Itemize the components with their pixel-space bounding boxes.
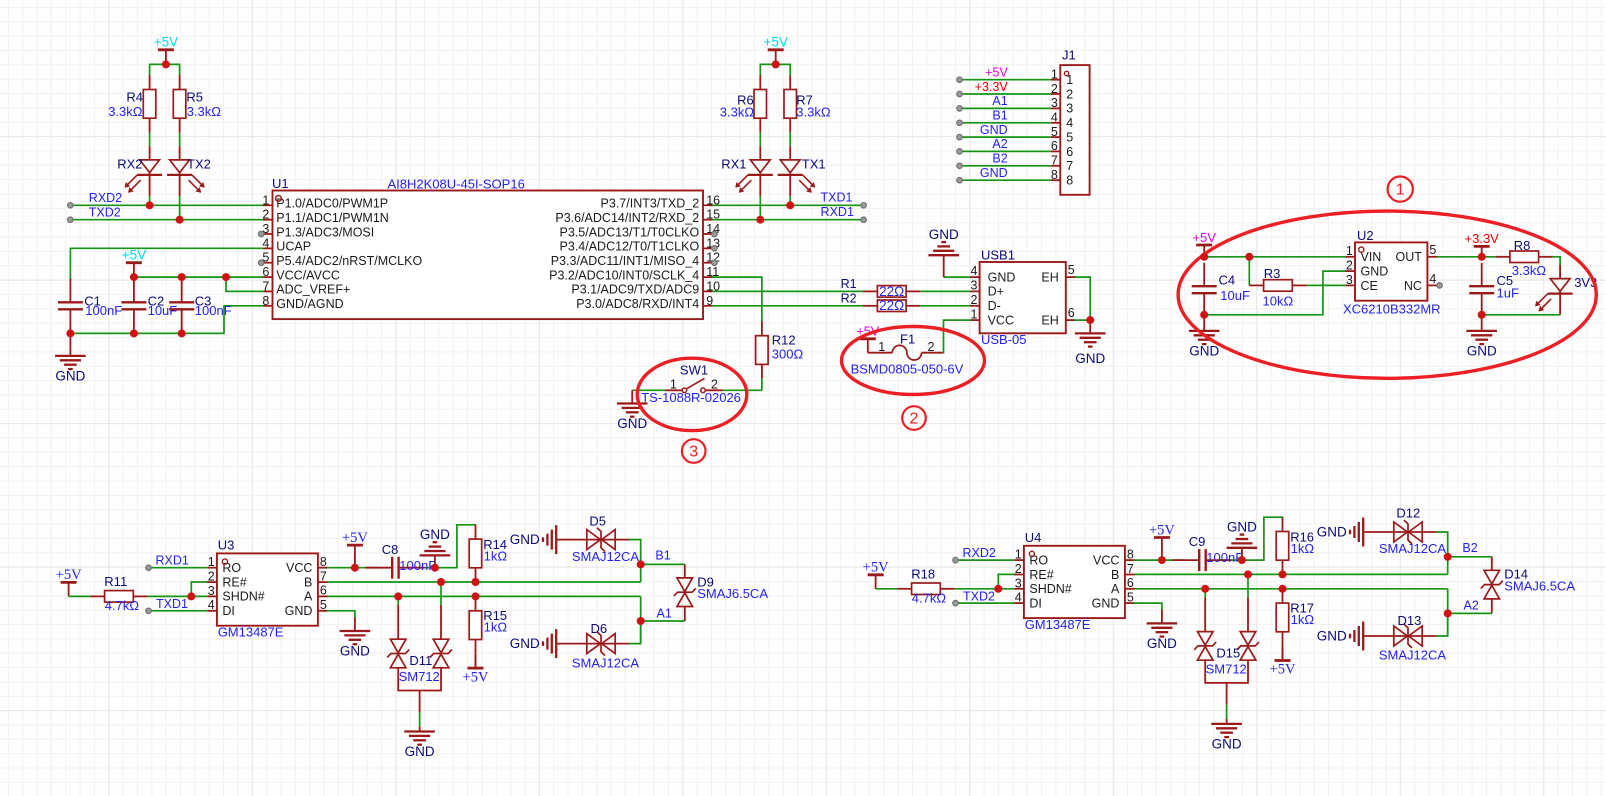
svg-text:5: 5 [1429, 243, 1436, 257]
wire [630, 540, 641, 565]
svg-text:P3.1/ADC9/TXD/ADC9: P3.1/ADC9/TXD/ADC9 [571, 283, 699, 297]
svg-text:A1: A1 [992, 94, 1007, 108]
svg-text:GM13487E: GM13487E [1025, 617, 1091, 632]
wire net RXD2 [956, 559, 1015, 561]
wire net RXD1 [149, 567, 208, 569]
svg-text:SMAJ12CA: SMAJ12CA [1379, 541, 1447, 556]
junction [1238, 556, 1246, 564]
svg-text:P1.3/ADC3/MOSI: P1.3/ADC3/MOSI [276, 225, 374, 239]
svg-text:4: 4 [1015, 591, 1022, 605]
power flag +5V [1192, 230, 1216, 257]
svg-text:VCC/AVCC: VCC/AVCC [276, 268, 340, 282]
svg-text:RE#: RE# [1029, 568, 1053, 582]
svg-text:3: 3 [970, 279, 977, 293]
svg-text:P3.4/ADC12/T0/T1CLKO: P3.4/ADC12/T0/T1CLKO [560, 240, 700, 254]
wire UCAP [70, 248, 263, 278]
svg-text:1: 1 [1015, 548, 1022, 562]
svg-text:A2: A2 [992, 137, 1007, 151]
junction [222, 273, 230, 281]
svg-text:5: 5 [1051, 125, 1058, 139]
svg-text:+5V: +5V [863, 560, 889, 576]
svg-text:TXD1: TXD1 [821, 191, 853, 205]
wire net GND [960, 136, 1051, 138]
power flag +5V [154, 35, 178, 65]
svg-text:7: 7 [1066, 159, 1073, 173]
wire net RXD1 [713, 219, 864, 221]
svg-text:RXD2: RXD2 [89, 191, 122, 205]
svg-text:U2: U2 [1357, 228, 1374, 243]
svg-text:2: 2 [208, 570, 215, 584]
annotation ellipse 1 [1178, 211, 1596, 378]
svg-text:5: 5 [320, 598, 327, 612]
resistor R6 [754, 75, 767, 132]
svg-text:1: 1 [970, 307, 977, 321]
svg-text:D6: D6 [591, 621, 608, 636]
junction [146, 201, 154, 209]
IC J1 header [1051, 48, 1090, 195]
ground flag above pin4 [944, 276, 970, 278]
wire [1482, 314, 1560, 316]
wire [713, 290, 863, 292]
power flag +5V [857, 325, 880, 353]
wire [1553, 257, 1560, 265]
resistor R7 [784, 75, 797, 132]
svg-text:SMAJ6.5CA: SMAJ6.5CA [697, 586, 768, 601]
wire net TXD2 [70, 219, 263, 221]
wire [148, 595, 208, 597]
junction [437, 578, 445, 586]
svg-text:6: 6 [320, 584, 327, 598]
svg-text:B2: B2 [1462, 541, 1477, 555]
wire [1242, 517, 1283, 560]
svg-text:100nF: 100nF [85, 303, 122, 318]
wire [1248, 257, 1250, 286]
wire [630, 621, 641, 644]
TVS diode D13 SMAJ12CA [1317, 613, 1447, 663]
svg-text:VIN: VIN [1361, 250, 1382, 264]
svg-text:P3.5/ADC13/T1/T0CLKO: P3.5/ADC13/T1/T0CLKO [560, 225, 700, 239]
svg-text:ADC_VREF+: ADC_VREF+ [276, 283, 350, 297]
wire [920, 305, 970, 307]
ground [1466, 315, 1497, 359]
svg-text:1: 1 [878, 340, 885, 354]
junction [1245, 253, 1253, 261]
pin 12 no-connect [712, 260, 718, 266]
wire vcc rail [134, 276, 263, 278]
svg-text:TXD1: TXD1 [156, 597, 188, 611]
TVS diode D6 SMAJ12CA [510, 621, 640, 671]
ground [55, 333, 86, 383]
svg-text:8: 8 [1066, 174, 1073, 188]
svg-text:GND: GND [1361, 264, 1389, 278]
power flag +5V [122, 248, 146, 278]
svg-text:8: 8 [1051, 168, 1058, 182]
svg-text:GND: GND [1317, 629, 1347, 644]
power flag +5V [56, 567, 82, 596]
capacitor C8 [365, 557, 424, 579]
pin 14 no-connect [712, 231, 718, 237]
wire [150, 64, 180, 75]
annotation ellipse 3 [637, 358, 747, 430]
junction [1444, 609, 1452, 617]
svg-text:NC: NC [1404, 279, 1422, 293]
wire net A1 [641, 620, 685, 622]
svg-text:GND: GND [420, 527, 450, 542]
svg-text:+5V: +5V [1270, 662, 1296, 678]
wire [713, 305, 863, 307]
junction [637, 560, 645, 568]
svg-text:4.7kΩ: 4.7kΩ [105, 598, 140, 613]
svg-text:U1: U1 [272, 176, 289, 191]
wire net A1 [960, 107, 1051, 109]
wire [149, 196, 151, 205]
svg-text:D+: D+ [988, 285, 1004, 299]
svg-text:P3.6/ADC14/INT2/RXD_2: P3.6/ADC14/INT2/RXD_2 [555, 211, 699, 225]
resistor R18 [897, 583, 954, 595]
pin 5 no-connect [258, 260, 264, 266]
svg-text:100nF: 100nF [399, 558, 436, 573]
junction [1279, 585, 1287, 593]
svg-text:F1: F1 [900, 331, 915, 346]
junction [472, 578, 480, 586]
LED RX1 [736, 146, 773, 196]
wire [789, 196, 791, 205]
resistor R17 [1276, 589, 1289, 646]
svg-text:+5V: +5V [342, 530, 368, 546]
svg-text:2: 2 [262, 208, 269, 222]
svg-text:4: 4 [1429, 272, 1436, 286]
wire [640, 564, 642, 582]
capacitor C5 [1469, 263, 1494, 317]
resistor R11 [90, 591, 147, 603]
svg-text:P1.1/ADC1/PWM1N: P1.1/ADC1/PWM1N [276, 211, 389, 225]
wire [1447, 557, 1449, 575]
svg-text:8: 8 [320, 555, 327, 569]
svg-text:3: 3 [1346, 273, 1353, 287]
IC U1 AI8H2K08U-45I-SOP16 [262, 176, 720, 319]
svg-text:USB-05: USB-05 [981, 332, 1027, 347]
svg-text:5: 5 [1127, 590, 1134, 604]
capacitor C4 [1192, 263, 1217, 317]
wire B [1135, 573, 1448, 575]
power flag +5V inverted [475, 654, 477, 668]
svg-text:R18: R18 [911, 567, 935, 582]
svg-text:R12: R12 [772, 333, 796, 348]
svg-text:1: 1 [1396, 182, 1405, 199]
svg-text:TXD2: TXD2 [89, 205, 121, 219]
wire net B1 [960, 122, 1051, 124]
svg-text:GND: GND [617, 416, 647, 431]
svg-text:+5V: +5V [154, 35, 178, 50]
svg-text:+5V: +5V [463, 669, 489, 685]
svg-text:10uF: 10uF [1220, 288, 1250, 303]
svg-text:GND: GND [1092, 596, 1120, 610]
wire [998, 574, 1014, 588]
wire net TXD1 [149, 610, 208, 612]
svg-text:B2: B2 [992, 152, 1007, 166]
junction [351, 564, 359, 572]
svg-text:P5.4/ADC2/nRST/MCLKO: P5.4/ADC2/nRST/MCLKO [276, 254, 422, 268]
svg-text:16: 16 [706, 193, 720, 207]
svg-text:U3: U3 [218, 537, 235, 552]
svg-text:AI8H2K08U-45I-SOP16: AI8H2K08U-45I-SOP16 [388, 177, 525, 192]
junction [1478, 311, 1486, 319]
wire [1135, 603, 1162, 610]
svg-text:1: 1 [1051, 68, 1058, 82]
annotation ellipse 2 [842, 327, 985, 395]
svg-text:R4: R4 [126, 90, 143, 105]
wire net +3.3V [960, 93, 1051, 95]
wire [1437, 613, 1448, 636]
svg-text:GND: GND [988, 270, 1016, 284]
resistor R4 [143, 75, 156, 132]
svg-text:3: 3 [689, 443, 698, 460]
svg-text:SHDN#: SHDN# [222, 590, 264, 604]
wire net +5V [960, 79, 1051, 81]
svg-text:RE#: RE# [222, 575, 246, 589]
wire [179, 133, 181, 147]
svg-text:GND: GND [1467, 344, 1497, 359]
LED TX1 [778, 146, 815, 196]
wire [1135, 559, 1186, 561]
svg-text:B1: B1 [992, 109, 1007, 123]
svg-text:7: 7 [320, 569, 327, 583]
wire net B1 [641, 563, 685, 565]
svg-text:GND: GND [1227, 520, 1257, 535]
svg-text:RO: RO [1029, 553, 1048, 567]
svg-text:10uF: 10uF [148, 303, 178, 318]
resistor R3 [1249, 280, 1306, 292]
svg-text:GND: GND [405, 744, 435, 759]
wire [759, 133, 761, 147]
svg-text:6: 6 [1051, 139, 1058, 153]
IC U3 GM13487E [207, 537, 327, 639]
wire [723, 389, 762, 391]
power flag +5V inverted [1282, 646, 1284, 660]
svg-text:CE: CE [1361, 279, 1378, 293]
junction [1158, 556, 1166, 564]
svg-text:TX2: TX2 [187, 157, 211, 172]
svg-text:6: 6 [262, 265, 269, 279]
wire [1220, 559, 1242, 561]
wire [149, 133, 151, 147]
wire [1447, 613, 1449, 636]
pin 13 no-connect [712, 246, 718, 252]
svg-text:SMAJ12CA: SMAJ12CA [572, 549, 640, 564]
svg-text:9: 9 [706, 294, 713, 308]
svg-text:RXD1: RXD1 [821, 205, 854, 219]
wire net GND [960, 179, 1051, 181]
svg-text:UCAP: UCAP [276, 240, 311, 254]
svg-text:D15: D15 [1216, 646, 1240, 661]
TVS diode D9 SMAJ6.5CA [674, 564, 768, 621]
ground [1189, 315, 1220, 359]
svg-text:RXD1: RXD1 [155, 553, 188, 567]
svg-text:1kΩ: 1kΩ [484, 620, 508, 635]
wire EH [1075, 277, 1090, 320]
TVS diode D11 SM712 [388, 582, 452, 727]
junction [786, 201, 794, 209]
svg-text:2: 2 [1051, 82, 1058, 96]
svg-text:1: 1 [208, 555, 215, 569]
ground [631, 390, 633, 403]
svg-text:OUT: OUT [1396, 250, 1423, 264]
TVS diode D15 SM712 [1195, 574, 1259, 719]
svg-text:R1: R1 [841, 277, 857, 291]
TVS diode D12 SMAJ12CA [1317, 506, 1447, 557]
wire [761, 379, 763, 391]
pin 3 no-connect [258, 231, 264, 237]
svg-text:SM712: SM712 [399, 669, 440, 684]
annotation circled 2 [902, 406, 926, 430]
power flag +5V [763, 35, 787, 65]
svg-text:XC6210B332MR: XC6210B332MR [1343, 302, 1441, 317]
svg-text:GND: GND [1317, 525, 1347, 540]
wire [191, 582, 207, 596]
wire net A2 [1448, 612, 1492, 614]
svg-text:GND: GND [1212, 737, 1242, 752]
wire [179, 196, 181, 220]
junction [1201, 585, 1209, 593]
wire net TXD2 [956, 602, 1015, 604]
svg-text:SW1: SW1 [680, 362, 708, 377]
svg-text:3.3kΩ: 3.3kΩ [1512, 263, 1547, 278]
svg-text:RX2: RX2 [117, 157, 142, 172]
svg-text:+5V: +5V [56, 567, 82, 583]
junction [66, 329, 74, 337]
svg-text:DI: DI [1029, 596, 1042, 610]
svg-text:P3.0/ADC8/RXD/INT4: P3.0/ADC8/RXD/INT4 [576, 297, 699, 311]
resistor R12 [756, 321, 769, 378]
wire [1437, 256, 1496, 258]
junction [1244, 570, 1252, 578]
svg-text:6: 6 [1068, 306, 1075, 320]
svg-text:R5: R5 [186, 90, 203, 105]
wire net RXD2 [70, 204, 263, 206]
svg-text:4: 4 [208, 598, 215, 612]
junction [130, 329, 138, 337]
svg-text:SM712: SM712 [1206, 661, 1247, 676]
svg-text:GND: GND [1075, 351, 1105, 366]
svg-text:1: 1 [262, 193, 269, 207]
svg-text:1: 1 [1346, 244, 1353, 258]
junction [394, 592, 402, 600]
wire [328, 567, 379, 569]
svg-text:+5V: +5V [1149, 522, 1175, 538]
svg-text:GND: GND [1147, 636, 1177, 651]
LED 3V3 [1535, 265, 1572, 315]
wire [944, 320, 970, 353]
svg-text:7: 7 [1051, 154, 1058, 168]
svg-text:A1: A1 [657, 606, 672, 620]
svg-text:B: B [304, 575, 312, 589]
wire [435, 525, 476, 568]
switch SW1 TS-1088R-02026 [641, 362, 741, 405]
svg-text:USB1: USB1 [981, 248, 1015, 263]
svg-text:3.3kΩ: 3.3kΩ [720, 104, 755, 119]
svg-text:3: 3 [1015, 576, 1022, 590]
junction [1478, 253, 1486, 261]
svg-text:TX1: TX1 [802, 157, 826, 172]
svg-text:TXD2: TXD2 [963, 590, 995, 604]
svg-text:GND: GND [1189, 344, 1219, 359]
ground [1075, 320, 1106, 366]
svg-text:RX1: RX1 [721, 157, 746, 172]
junction [472, 592, 480, 600]
svg-text:22Ω: 22Ω [879, 284, 904, 299]
ground [354, 617, 356, 631]
resistor R1 [863, 286, 920, 298]
power flag +5V [342, 530, 368, 568]
svg-text:1kΩ: 1kΩ [1291, 541, 1315, 556]
junction [178, 329, 186, 337]
TVS diode D14 SMAJ6.5CA [1481, 557, 1575, 614]
svg-text:RXD2: RXD2 [962, 546, 995, 560]
svg-text:D5: D5 [589, 513, 606, 528]
svg-text:GND/AGND: GND/AGND [276, 297, 343, 311]
resistor R16 [1276, 517, 1289, 574]
svg-text:D13: D13 [1398, 613, 1422, 628]
wire A [328, 595, 641, 597]
svg-text:SMAJ12CA: SMAJ12CA [572, 655, 640, 670]
wire [713, 277, 762, 321]
resistor R8 [1496, 251, 1553, 263]
annotation circled 3 [682, 439, 706, 463]
svg-text:1kΩ: 1kΩ [1291, 612, 1315, 627]
svg-text:22Ω: 22Ω [879, 298, 904, 313]
svg-text:P3.2/ADC10/INT0/SCLK_4: P3.2/ADC10/INT0/SCLK_4 [549, 268, 699, 282]
wire [920, 290, 970, 292]
wire B [328, 581, 641, 583]
wire net TXD1 [713, 204, 864, 206]
svg-text:VCC: VCC [286, 561, 312, 575]
svg-text:6: 6 [1066, 145, 1073, 159]
junction [431, 564, 439, 572]
junction [162, 60, 170, 68]
wire [760, 64, 790, 75]
svg-text:A: A [304, 590, 313, 604]
svg-text:+3.3V: +3.3V [1465, 231, 1500, 246]
svg-text:2: 2 [970, 293, 977, 307]
svg-text:1uF: 1uF [1497, 285, 1519, 300]
capacitor C9 [1172, 549, 1232, 571]
svg-text:D-: D- [988, 299, 1001, 313]
wire [759, 196, 761, 220]
IC U4 GM13487E [1014, 530, 1134, 632]
svg-text:100nF: 100nF [1206, 550, 1243, 565]
svg-text:P3.3/ADC11/INT1/MISO_4: P3.3/ADC11/INT1/MISO_4 [551, 254, 699, 268]
svg-text:SMAJ12CA: SMAJ12CA [1379, 648, 1447, 663]
wire [1437, 532, 1448, 557]
IC USB1 USB-05 [970, 248, 1075, 347]
wire net B2 [1448, 556, 1492, 558]
ground flag [1227, 520, 1258, 561]
svg-text:C8: C8 [382, 542, 399, 557]
svg-text:SMAJ6.5CA: SMAJ6.5CA [1504, 578, 1575, 593]
resistor R15 [469, 596, 482, 653]
svg-text:R3: R3 [1264, 266, 1281, 281]
svg-text:10kΩ: 10kΩ [1263, 294, 1294, 309]
fuse F1 BSMD0805-050-6V [851, 331, 964, 376]
wire [640, 621, 642, 644]
svg-text:J1: J1 [1062, 48, 1076, 63]
junction [178, 273, 186, 281]
svg-text:P1.0/ADC0/PWM1P: P1.0/ADC0/PWM1P [276, 197, 388, 211]
svg-text:2: 2 [1015, 562, 1022, 576]
wire [328, 611, 355, 618]
svg-text:+3.3V: +3.3V [975, 80, 1009, 94]
junction [772, 60, 780, 68]
